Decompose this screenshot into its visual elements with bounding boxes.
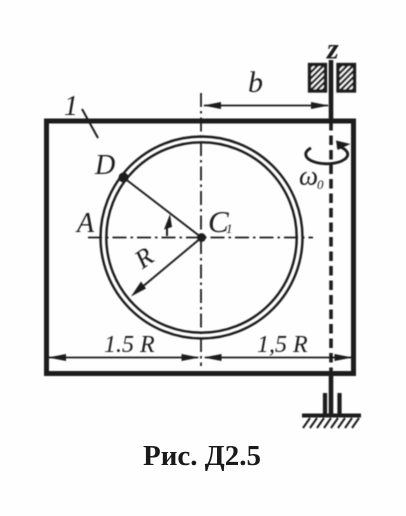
- node D (dot on ring): [119, 173, 129, 183]
- svg-text:1: 1: [64, 91, 78, 122]
- label 1 (plate): [64, 91, 78, 122]
- node C1 (center dot): [197, 233, 206, 242]
- left segment right arrow: [182, 354, 200, 361]
- svg-text:1.5 R: 1.5 R: [104, 332, 155, 358]
- label R: [128, 241, 159, 275]
- svg-text:1,5 R: 1,5 R: [257, 332, 308, 358]
- label 1,5 R: [257, 332, 308, 358]
- bottom bearing cup left wall: [323, 393, 327, 415]
- bearing top right block (hatched): [338, 65, 355, 92]
- right segment right arrow: [335, 354, 353, 361]
- dimension b line: [204, 105, 328, 107]
- radius arrow R: [135, 238, 202, 294]
- small direction arrow near C1: [166, 224, 168, 236]
- bearing top left block (hatched): [310, 65, 326, 92]
- bottom bearing cup right wall: [337, 393, 341, 415]
- left segment left arrow: [48, 354, 66, 361]
- label A: [75, 208, 95, 239]
- right segment left arrow: [204, 354, 222, 361]
- label C1: [208, 204, 233, 239]
- rotation arrow omega0 (elliptical arc): [306, 146, 348, 164]
- ring inner circle: [106, 142, 296, 332]
- shaft z dashed segment inside plate: [329, 121, 333, 373]
- shaft z bottom solid segment: [329, 373, 334, 415]
- svg-text:D: D: [94, 150, 115, 181]
- vertical centerline: [200, 93, 202, 366]
- label 1.5 R: [104, 332, 155, 358]
- svg-text:ω: ω: [299, 161, 318, 191]
- shaft z top solid segment: [329, 60, 334, 121]
- label D: [94, 150, 115, 181]
- ground hatching: [303, 418, 359, 428]
- svg-text:A: A: [75, 208, 95, 239]
- dimension b left arrow: [203, 102, 221, 109]
- label b: [248, 66, 263, 99]
- bottom dimension line right segment (1,5R): [205, 357, 351, 359]
- label omega0: [299, 161, 324, 193]
- label z: [326, 33, 339, 66]
- caption: [0, 440, 405, 473]
- radius line C1-D: [124, 178, 202, 238]
- svg-text:0: 0: [317, 177, 324, 192]
- svg-text:1: 1: [226, 221, 233, 236]
- ground line: [302, 414, 361, 418]
- svg-text:R: R: [128, 241, 159, 275]
- svg-text:b: b: [248, 66, 263, 99]
- ring outer circle: [101, 137, 303, 339]
- plate outline (square): [47, 121, 354, 374]
- bottom dimension line left segment (1.5R): [49, 357, 198, 359]
- leader line of label 1: [82, 109, 98, 138]
- dimension b right arrow: [311, 102, 329, 109]
- horizontal centerline: [88, 237, 313, 239]
